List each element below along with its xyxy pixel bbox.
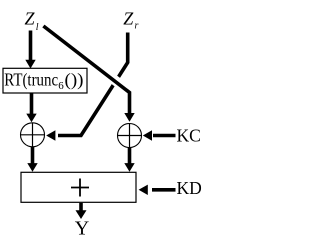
wire arrow KC into right xor: [143, 130, 176, 140]
xor node left: [21, 123, 45, 147]
wire arrow adder box to output Y: [76, 203, 87, 219]
svg-text:()): ()): [65, 69, 84, 89]
crossing break (white gap over Zr wire): [107, 74, 125, 88]
xor node right: [118, 124, 142, 148]
svg-text:Z: Z: [25, 9, 36, 29]
node Zl label: [25, 9, 39, 34]
svg-text:KC: KC: [177, 125, 201, 145]
svg-text:Z: Z: [123, 9, 134, 29]
wire arrow right xor to adder box: [124, 148, 134, 172]
wire arrow left xor to adder box: [27, 147, 37, 172]
wire arrow Zl to RT box: [25, 31, 35, 69]
svg-text:Y: Y: [75, 218, 89, 240]
wire Zr vertical then diagonal to left xor (crossing under): [46, 33, 128, 141]
wire arrow RT box to left xor: [26, 94, 36, 123]
box RT(trunc6()): [3, 68, 87, 93]
svg-text:KD: KD: [177, 178, 202, 198]
adder box with plus: [21, 172, 136, 202]
wire Zl diagonal to right xor (crossing over): [43, 26, 134, 122]
svg-text:6: 6: [58, 80, 64, 92]
svg-text:RT(trunc: RT(trunc: [4, 69, 58, 89]
node Zr label: [123, 9, 138, 32]
svg-text:l: l: [36, 22, 39, 33]
svg-text:r: r: [135, 21, 139, 32]
wire arrow KD into adder box: [139, 185, 176, 195]
